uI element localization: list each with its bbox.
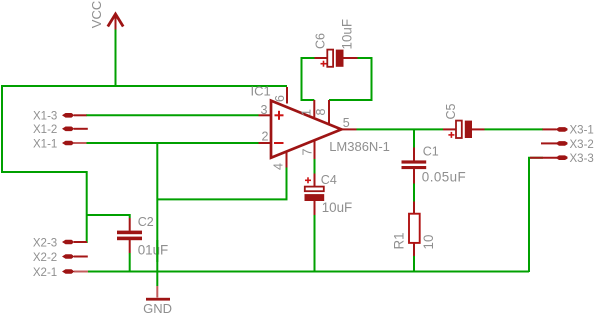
svg-text:6: 6 (273, 95, 287, 102)
svg-text:3: 3 (261, 103, 268, 117)
svg-text:C2: C2 (138, 215, 154, 229)
svg-text:10: 10 (421, 235, 436, 250)
svg-text:0.05uF: 0.05uF (422, 170, 466, 185)
svg-text:10uF: 10uF (322, 200, 353, 215)
svg-text:X3-3: X3-3 (570, 153, 594, 165)
svg-text:7: 7 (301, 149, 315, 156)
svg-text:GND: GND (143, 301, 172, 316)
svg-text:X3-1: X3-1 (570, 125, 594, 137)
svg-text:1: 1 (300, 109, 314, 116)
svg-text:X2-3: X2-3 (33, 238, 57, 250)
svg-text:2: 2 (262, 130, 269, 144)
svg-text:C1: C1 (423, 145, 439, 159)
svg-text:IC1: IC1 (251, 84, 271, 99)
svg-text:C5: C5 (444, 103, 458, 119)
svg-text:R1: R1 (392, 232, 407, 249)
svg-text:X3-2: X3-2 (570, 139, 594, 151)
svg-text:4: 4 (272, 163, 286, 170)
svg-text:8: 8 (314, 109, 328, 116)
svg-text:X1-2: X1-2 (33, 124, 57, 136)
svg-text:VCC: VCC (89, 1, 104, 28)
svg-text:01uF: 01uF (138, 243, 169, 258)
svg-text:10uF: 10uF (340, 19, 355, 50)
svg-text:C6: C6 (314, 33, 328, 49)
svg-text:X1-1: X1-1 (33, 138, 57, 150)
svg-text:X2-1: X2-1 (33, 267, 57, 279)
svg-text:X1-3: X1-3 (33, 111, 57, 123)
svg-text:LM386N-1: LM386N-1 (329, 139, 390, 154)
svg-text:C4: C4 (321, 173, 337, 187)
svg-text:5: 5 (343, 116, 350, 130)
svg-text:X2-2: X2-2 (33, 252, 57, 264)
